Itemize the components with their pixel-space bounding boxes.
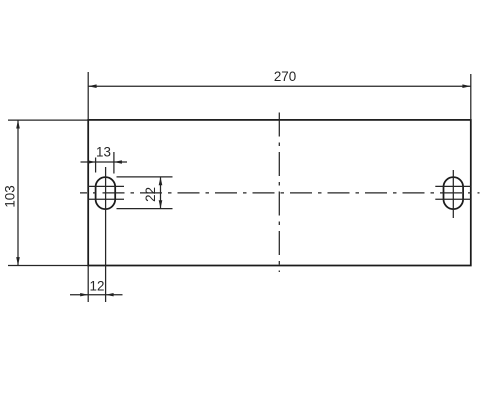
left slot lower arc center mark xyxy=(88,198,124,200)
dimension 270: dimension line xyxy=(88,85,471,87)
dimension 103: arrowheads xyxy=(16,120,20,265)
left slot (13 x 22 obround hole) xyxy=(96,177,116,209)
dimension 22: arrowheads xyxy=(159,177,163,209)
right slot (13 x 22 obround hole) xyxy=(444,177,464,209)
svg-text:12: 12 xyxy=(90,279,105,294)
svg-text:22: 22 xyxy=(143,187,158,202)
dimension 13: extension lines at slot sides xyxy=(96,152,114,174)
right slot upper arc center mark xyxy=(435,185,471,187)
vertical dash-dot centerline at plate middle xyxy=(278,113,280,273)
dimension 103: dimension line xyxy=(17,120,19,265)
right slot vertical centerline xyxy=(452,170,454,218)
dimension 13: outside arrowheads xyxy=(88,160,122,163)
dimension 12: extension line below plate edge xyxy=(87,266,89,303)
dimension 12: outside arrowheads xyxy=(80,293,113,296)
left slot vertical centerline xyxy=(105,167,107,302)
dimension 12: dimension line xyxy=(70,294,123,296)
right slot lower arc center mark xyxy=(435,198,471,200)
dimension 22: extension lines at slot top and bottom xyxy=(117,177,173,209)
svg-text:103: 103 xyxy=(3,185,18,207)
svg-text:270: 270 xyxy=(274,69,296,84)
dimension 103: extension lines xyxy=(8,120,88,265)
dimension 270: extension lines xyxy=(88,72,471,120)
dimension 270: arrowheads xyxy=(88,84,471,88)
left slot upper arc center mark xyxy=(88,185,124,187)
dimension 13: dimension line xyxy=(81,161,128,163)
svg-text:13: 13 xyxy=(96,144,111,159)
horizontal dash-dot centerline xyxy=(80,192,480,194)
plate outline (270 x 103 rectangle) xyxy=(88,120,471,266)
dimension 22: dimension line xyxy=(160,177,162,209)
